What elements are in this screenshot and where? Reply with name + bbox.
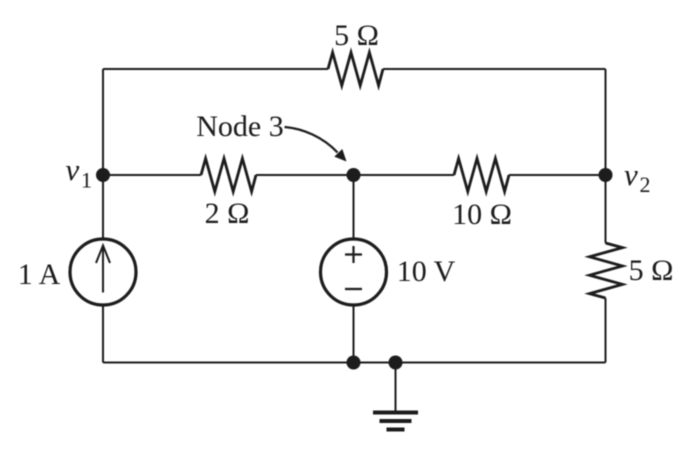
label 1 A [18,258,61,291]
label v2 [624,157,651,197]
resistor R3 10 Ohm [454,159,509,192]
node 3 junction dot [347,168,361,182]
wire left rail (v1 column) [102,69,104,363]
wire top rail right segment [383,68,606,70]
wire middle rail node 3 to 10 Ohm [354,174,455,176]
svg-text:2 Ω: 2 Ω [205,197,250,230]
bottom rail junction dot (ground) [389,356,403,370]
svg-text:v: v [66,152,80,187]
svg-text:1: 1 [81,168,92,193]
current source arrow [96,246,110,293]
wire middle branch node3 down to voltage source [353,175,355,238]
label 10 V [397,255,456,288]
svg-text:Node 3: Node 3 [196,110,283,143]
svg-text:v: v [624,157,638,192]
voltage source plus sign [345,246,362,263]
label Node 3 [196,110,283,143]
wire middle rail 2 Ohm to node 3 [256,174,354,176]
label v1 [66,152,93,193]
voltage source V1 10 V [321,239,387,305]
resistor R2 2 Ohm [201,159,256,192]
node v1 junction dot [96,168,110,182]
wire right rail bottom segment [605,298,607,363]
ground stem [395,363,397,412]
wire middle branch voltage source to bottom rail [353,306,355,363]
resistor R4 5 Ohm (right, vertical) [590,243,623,298]
wire bottom rail [103,362,606,364]
svg-text:2: 2 [640,172,651,197]
ground symbol bars [373,413,418,430]
svg-text:1 A: 1 A [18,258,61,291]
resistor R1 5 Ohm (top) [328,53,383,86]
wire right rail top segment [605,69,607,243]
node v2 junction dot [599,168,613,182]
svg-text:5 Ω: 5 Ω [629,254,674,287]
current source I1 1 A [70,239,136,305]
wire top rail left segment [103,68,328,70]
wire middle rail 10 Ohm to v2 [509,174,606,176]
svg-text:5 Ω: 5 Ω [334,19,379,52]
label 5 Ohm (top resistor) [334,19,379,52]
label 10 Ohm [452,198,512,231]
svg-text:10 V: 10 V [397,255,456,288]
Node 3 pointer arrow [285,127,347,162]
label 5 Ohm (right resistor) [629,254,674,287]
svg-text:10 Ω: 10 Ω [452,198,512,231]
voltage source minus sign [345,288,362,290]
bottom rail junction dot (voltage source) [347,356,361,370]
wire middle rail v1 to 2 Ohm [103,174,201,176]
label 2 Ohm [205,197,250,230]
